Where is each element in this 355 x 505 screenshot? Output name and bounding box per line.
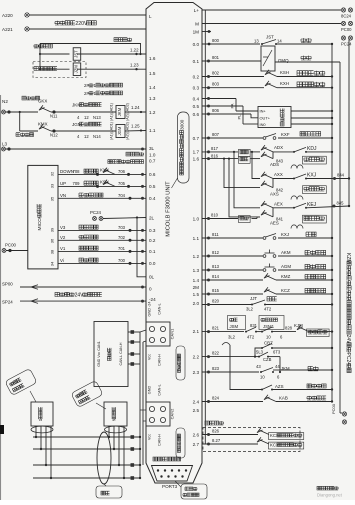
svg-text:3000: 3000 [179, 119, 184, 130]
wire KJM to bus [309, 330, 333, 332]
svg-text:AES: AES [270, 221, 279, 226]
switch KXF fire [263, 132, 290, 139]
terminal A221 [2, 27, 29, 32]
callout note controller model 3000 [172, 112, 190, 188]
svg-text:2.3: 2.3 [193, 370, 200, 375]
contact KMX [20, 124, 59, 137]
svg-text:812: 812 [212, 250, 220, 255]
svg-text:CAN-L: CAN-L [158, 384, 162, 395]
svg-text:1.7: 1.7 [193, 150, 200, 155]
svg-text:3L2: 3L2 [228, 335, 236, 340]
svg-text:1.0: 1.0 [149, 152, 156, 157]
inverter U2 MICO box [28, 165, 58, 269]
label terminal-up forced slowdown [297, 71, 325, 76]
board box hall call top floor [104, 402, 127, 426]
dashed box lighting relay [33, 62, 86, 78]
wire routing vertical to AEX upper [233, 151, 260, 208]
terminal pair PC24 [341, 36, 353, 47]
wire 813 row [202, 264, 263, 272]
shield ellipse 2 [105, 426, 127, 433]
svg-text:12: 12 [84, 134, 89, 139]
wire SP00 to pin 0 [20, 286, 146, 289]
svg-text:N13: N13 [93, 115, 101, 120]
svg-text:1.2: 1.2 [193, 254, 200, 259]
wire coil JKM to pin 1.2 [125, 105, 146, 113]
sensor GMQ door zone box [261, 46, 275, 71]
svg-text:SP00: SP00 [2, 282, 13, 287]
contact ADX lower [261, 152, 284, 164]
callout hall call board interface [176, 428, 185, 458]
wire A220 to pin L [29, 14, 146, 16]
svg-text:704: 704 [118, 193, 126, 198]
bus vertical rail beside controller [204, 10, 206, 444]
wire KCZ to bus [276, 293, 333, 295]
svg-text:SP24: SP24 [2, 300, 13, 305]
svg-text:V2: V2 [60, 235, 66, 240]
svg-text:KDJ: KDJ [307, 146, 317, 152]
contact ADX upper [261, 145, 283, 152]
wire 823 row [202, 366, 259, 374]
wire SP24 to pin -24 [20, 300, 146, 303]
svg-text:14: 14 [277, 39, 282, 44]
label Vcc CAN-H vertical below CAN1 [148, 354, 162, 366]
wire loop above JST row [40, 44, 142, 56]
svg-text:CAN1: CAN1 [170, 328, 175, 339]
controller right pin labels [193, 8, 200, 447]
svg-text:0: 0 [149, 287, 152, 292]
page edge line left [0, 95, 2, 500]
label output spare top [114, 38, 132, 42]
label machine-room inspection boxed [303, 215, 327, 223]
svg-text:700: 700 [118, 258, 126, 263]
svg-text:33: 33 [50, 183, 55, 188]
svg-text:MICO: MICO [37, 218, 43, 231]
terminal A220 [2, 13, 29, 18]
contact KDJ [273, 146, 317, 153]
terminal PC24 pair [90, 210, 103, 221]
svg-text:Vcc: Vcc [148, 354, 152, 360]
svg-text:10: 10 [260, 375, 265, 380]
svg-text:PC00: PC00 [5, 243, 17, 248]
label AXS [270, 192, 279, 197]
svg-text:0.1: 0.1 [193, 59, 200, 64]
wire slowdown to ADX [251, 151, 261, 153]
connector CAN1 block [146, 322, 170, 346]
contact CBZ [261, 341, 333, 350]
wire KXH to bus [277, 87, 333, 89]
contact JST 13-14 [254, 35, 282, 46]
svg-text:N14: N14 [93, 134, 101, 139]
svg-text:5L3: 5L3 [256, 350, 264, 355]
label door zone [301, 56, 311, 60]
svg-text:702: 702 [118, 235, 126, 240]
terminal L3 [2, 142, 11, 152]
svg-text:845: 845 [337, 201, 345, 206]
svg-text:32: 32 [50, 171, 55, 176]
wire V1 crawl speed 701 to pin 0.1 [58, 246, 146, 253]
svg-text:1.6: 1.6 [149, 56, 156, 61]
callout highest floor hall call [71, 380, 106, 409]
label CAN1 [170, 328, 175, 339]
svg-text:0.5: 0.5 [193, 104, 200, 109]
page mark bottom-left [0, 425, 4, 434]
label ADS [270, 162, 279, 167]
shield ellipse 1 [31, 426, 53, 433]
svg-text:ADS: ADS [270, 162, 279, 167]
svg-text:12: 12 [84, 115, 89, 120]
svg-text:JKM: JKM [117, 107, 122, 116]
svg-text:2.0: 2.0 [193, 301, 200, 306]
wire AEX gang link [272, 208, 274, 217]
contact AZS [261, 384, 284, 391]
label close door button boxed [305, 264, 326, 268]
svg-text:KMZ: KMZ [281, 274, 291, 279]
svg-text:0.3: 0.3 [149, 228, 156, 233]
label JGM open-door relay [72, 122, 102, 127]
contact KAB [264, 395, 288, 402]
label input spare [205, 421, 223, 425]
relay coil JKM with suppressors [110, 103, 130, 121]
svg-text:814: 814 [212, 274, 220, 279]
svg-text:0.4: 0.4 [149, 196, 156, 201]
label KCS secondary top forced slowdown boxed [269, 433, 304, 440]
svg-text:1.1: 1.1 [193, 236, 200, 241]
wire VN releveling speed 704 to pin 0.4 [58, 193, 146, 200]
wire routing vertical to AXX upper [251, 151, 260, 179]
wire 820 row [202, 299, 252, 307]
wire M to terminal PC00 [202, 23, 341, 25]
svg-text:39: 39 [50, 227, 55, 232]
svg-text:JGM: JGM [117, 126, 122, 135]
wire 824 row [202, 396, 263, 404]
svg-text:10: 10 [266, 335, 271, 340]
label door open limit [16, 133, 34, 137]
bus horizontal CAN lines bottom [33, 435, 140, 480]
svg-text:KAB: KAB [279, 396, 288, 401]
svg-text:1.1: 1.1 [149, 128, 156, 133]
label door-open control output 1.3 [84, 91, 123, 96]
svg-text:0.6: 0.6 [193, 112, 200, 117]
svg-text:3L: 3L [149, 146, 155, 151]
svg-text:0L: 0L [149, 275, 155, 280]
label blocked return signal output [108, 160, 144, 164]
label waiting [301, 38, 311, 42]
svg-text:JZM: JZM [73, 65, 78, 74]
svg-text:1.0: 1.0 [193, 216, 200, 221]
wire 827 row [202, 438, 258, 446]
contact KJM [294, 323, 309, 332]
wire L3 to pin 3L [6, 148, 147, 151]
connector CAN2 block [146, 402, 170, 426]
svg-text:13: 13 [254, 39, 259, 44]
svg-text:V3: V3 [60, 225, 66, 230]
wire KDJ to bus [306, 151, 333, 153]
svg-text:815: 815 [212, 288, 220, 293]
contact JKM 43-44 [256, 364, 290, 380]
svg-text:CAN-H: CAN-H [158, 434, 162, 446]
button AGM [263, 264, 291, 272]
svg-text:4T2: 4T2 [264, 307, 272, 312]
label KCX secondary bottom forced slowdown boxed [269, 442, 304, 449]
svg-text:PC24: PC24 [341, 42, 352, 47]
label auxiliary relay row1 [34, 44, 52, 48]
pin labels 5L3 6T3 [256, 350, 281, 355]
svg-text:822: 822 [212, 351, 220, 356]
wire 821 row [202, 326, 244, 334]
label slow up boxed [239, 156, 251, 163]
svg-text:KSH: KSH [280, 70, 289, 75]
svg-text:821: 821 [212, 326, 220, 331]
wires car-call board to CAN1 with ferrites [128, 330, 140, 366]
contact JSM1 [256, 327, 273, 333]
svg-text:PORT3: PORT3 [162, 484, 178, 489]
svg-text:CAN-L CAN-H: CAN-L CAN-H [119, 342, 123, 365]
wire KEJ to bus3 845 [306, 201, 350, 208]
contact KCZ [264, 287, 290, 294]
svg-text:N12: N12 [50, 133, 58, 138]
svg-text:PL: PL [238, 115, 242, 120]
contact KEJ [273, 202, 317, 209]
svg-text:CAN-H: CAN-H [158, 354, 162, 366]
inverter pin numbers [50, 171, 55, 266]
svg-text:0.6: 0.6 [149, 172, 156, 177]
svg-text:36: 36 [50, 238, 55, 243]
wire 0.4 row to PA [202, 97, 236, 100]
svg-text:0.4: 0.4 [193, 96, 200, 101]
svg-text:V1: V1 [60, 246, 66, 251]
svg-text:701: 701 [118, 246, 126, 251]
callout twisted shielded pair interface [175, 481, 207, 499]
label KMX [38, 122, 48, 127]
wire vertical coil return [39, 44, 41, 71]
bus vertical second right [339, 62, 341, 413]
svg-text:PC00: PC00 [341, 27, 352, 32]
svg-text:0.7: 0.7 [149, 158, 156, 163]
wire 817 row slow-down [202, 146, 238, 153]
note vertical right edge [345, 253, 351, 373]
wire PA vertical [231, 99, 259, 112]
svg-text:Vi: Vi [60, 258, 64, 263]
label open door button boxed [305, 250, 326, 254]
contact JSM [245, 323, 258, 333]
svg-text:706: 706 [118, 169, 126, 174]
label car door contact boxed [307, 329, 330, 337]
svg-text:35: 35 [50, 196, 55, 201]
svg-text:2M: 2M [193, 285, 200, 290]
label CAN2 [170, 408, 175, 419]
svg-text:831: 831 [250, 323, 258, 328]
label terminal-down forced slowdown [297, 82, 325, 87]
wire 812 row [202, 250, 263, 258]
svg-text:800: 800 [212, 38, 220, 43]
wire JJT to bus [265, 303, 333, 305]
terminal PC00 bottom pair [340, 412, 347, 424]
relay coil JST [73, 48, 81, 61]
wire 826 row [202, 429, 258, 437]
bus vertical main right [331, 44, 333, 402]
svg-text:ADX: ADX [274, 145, 283, 150]
svg-text:KXJ: KXJ [307, 173, 317, 179]
svg-text:L3: L3 [2, 142, 8, 147]
bus vertical PC24 drop [348, 40, 350, 206]
wire GKX to coil [51, 112, 116, 120]
svg-text:KXJ: KXJ [281, 232, 289, 237]
terminal SP24 arrow [2, 299, 38, 305]
svg-text:GND -24: GND -24 [148, 302, 152, 317]
svg-text:IN0: IN0 [260, 122, 267, 127]
svg-text:PC24: PC24 [90, 210, 102, 215]
contact KCS [257, 428, 269, 435]
svg-text:N2: N2 [2, 99, 8, 104]
svg-text:1.5: 1.5 [149, 71, 156, 76]
svg-text:Diangong.net: Diangong.net [317, 493, 343, 498]
svg-text:L+: L+ [194, 8, 200, 13]
terminal pair 8C24 [341, 8, 353, 19]
wire KMZ to bus [276, 279, 333, 281]
svg-text:GND Vcc CAN1: GND Vcc CAN1 [97, 341, 101, 367]
svg-text:705: 705 [118, 181, 126, 186]
label door-close control output 1.4 [84, 83, 123, 88]
wire 807 row [202, 132, 263, 140]
svg-text:2L: 2L [149, 215, 155, 220]
svg-text:KXF: KXF [281, 132, 290, 137]
wire DOWN 708 lower limit KXX 706 to pin 0.6 [58, 168, 146, 176]
wire number 1.23 [130, 63, 139, 71]
svg-text:708: 708 [73, 169, 81, 174]
svg-text:1.22: 1.22 [130, 48, 139, 53]
svg-text:0.0: 0.0 [193, 42, 200, 47]
wire JKM to bus [273, 369, 333, 371]
svg-text:AKM: AKM [281, 250, 291, 255]
svg-text:A220: A220 [2, 13, 13, 18]
svg-text:1.2: 1.2 [149, 110, 156, 115]
svg-text:703: 703 [118, 225, 126, 230]
svg-text:43: 43 [256, 364, 261, 369]
svg-text:813: 813 [212, 264, 220, 269]
svg-text:MICOLB F3000 UNIT: MICOLB F3000 UNIT [166, 181, 172, 237]
connector DB9 PORT3 [152, 466, 193, 482]
wire 2L to 0L link [136, 216, 146, 276]
wire V2 single-floor speed 702 to pin 0.2 [58, 235, 146, 242]
label AES [270, 221, 279, 226]
svg-text:0.2: 0.2 [193, 74, 200, 79]
terminal PC00 left [2, 243, 17, 253]
label Vcc CAN-H below CAN2 [148, 434, 162, 446]
svg-text:0.7: 0.7 [193, 136, 200, 141]
board box hall call 1st floor [31, 402, 53, 426]
contact CZB [255, 352, 280, 362]
controller U1 MICOLB F3000 UNIT box [146, 3, 202, 484]
svg-text:8.27: 8.27 [212, 438, 221, 443]
svg-text:220V: 220V [75, 21, 88, 27]
label GND -24 vertical [148, 302, 162, 317]
label fire switch [300, 132, 321, 136]
contact KXJ [273, 173, 317, 180]
contact KSH [265, 70, 289, 77]
svg-text:GND: GND [148, 386, 152, 395]
svg-text:824: 824 [212, 396, 220, 401]
label GMQ [278, 58, 289, 63]
wire slowup to ADX2 [251, 158, 261, 160]
wire KMX to coil [51, 131, 116, 139]
svg-text:AXX: AXX [274, 172, 283, 177]
contact KXH [265, 81, 289, 88]
wire JST to bus [276, 43, 333, 45]
wire 810 row [202, 213, 238, 221]
svg-text:GKX: GKX [38, 99, 47, 104]
label inspection boxed [239, 216, 251, 223]
inverter U2 name [37, 204, 43, 231]
wire KXF to bus [278, 137, 333, 139]
device load weighing box [258, 107, 291, 128]
switch KXJ driver [263, 232, 289, 239]
wire PL vertical [238, 106, 259, 124]
svg-text:38: 38 [50, 249, 55, 254]
wire CAN2 stubs [140, 410, 146, 421]
wire PC00 to inverter [6, 250, 28, 252]
label door lock aux JSM1 boxed [259, 316, 284, 330]
pin labels 3L2 4T2 [246, 307, 272, 312]
wire 815 row [202, 288, 263, 296]
wire V3 multi-floor speed 703 to pin 0.3 [58, 225, 146, 232]
terminal N2 [2, 99, 11, 114]
svg-text:0.1: 0.1 [149, 249, 156, 254]
svg-text:2.4: 2.4 [193, 399, 200, 404]
wire AZS branch [222, 343, 262, 390]
svg-text:810: 810 [211, 213, 219, 218]
label GKX [38, 99, 47, 104]
label comm system 24V supply input [55, 292, 102, 298]
svg-text:823: 823 [212, 366, 220, 371]
svg-text:802: 802 [212, 71, 220, 76]
label JKM close-door relay [72, 103, 102, 108]
label car-top inspection boxed [303, 156, 327, 164]
wire number 1.22 [130, 48, 139, 56]
svg-text:1.24: 1.24 [131, 105, 140, 110]
label overload switch boxed [305, 288, 326, 292]
contact AEX lower [261, 210, 284, 221]
wire CBZ branch vertical [254, 348, 262, 358]
wires load weighing outputs to bus [291, 110, 333, 125]
wire AXX gang link [272, 179, 274, 188]
wire row JZM coil [40, 68, 146, 70]
controller left pin labels [149, 14, 156, 302]
svg-text:1.25: 1.25 [131, 124, 140, 129]
cable ellipse [97, 432, 111, 484]
wire A221 [29, 28, 146, 30]
wire UP 709 upper limit KSX 705 to pin 0.5 [58, 180, 146, 188]
controller U1 name text MICOLB F3000 UNIT [166, 181, 172, 237]
wire ADX gang link [272, 152, 274, 159]
svg-text:Vcc: Vcc [148, 434, 152, 440]
wire 803 row [202, 82, 264, 90]
wire routing vertical to AEX lower [228, 158, 260, 217]
svg-text:1.5: 1.5 [193, 292, 200, 297]
svg-text:L: L [149, 14, 152, 19]
svg-text:KCZ: KCZ [281, 288, 290, 293]
svg-text:KMX: KMX [38, 122, 48, 127]
wire L+ to terminal 8C24 [202, 9, 341, 11]
svg-text:4T2: 4T2 [247, 335, 255, 340]
svg-text:826: 826 [212, 429, 220, 434]
wire GMQ to bus2 [275, 61, 340, 63]
wire 814 row [202, 274, 263, 282]
svg-text:OUT+: OUT+ [260, 116, 271, 121]
watermark [317, 486, 343, 497]
svg-text:2.7: 2.7 [193, 442, 200, 447]
svg-text:CAN2: CAN2 [170, 408, 175, 419]
svg-text:0.0: 0.0 [149, 261, 156, 266]
